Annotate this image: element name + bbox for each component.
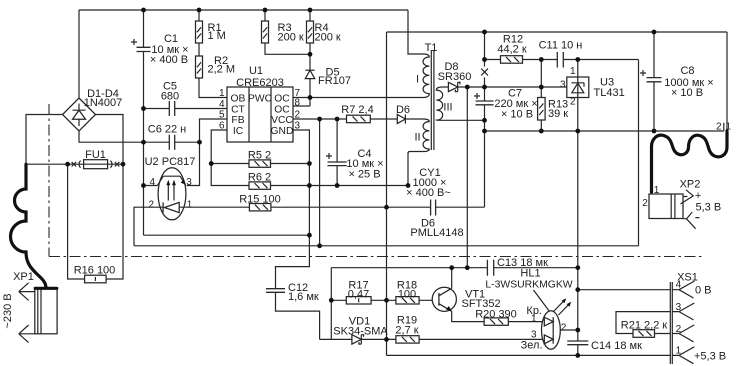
- wire: VT1 collector riser: [451, 268, 453, 289]
- wire: R16 loop under fuse: [68, 164, 123, 279]
- svg-text:× 400 В~: × 400 В~: [406, 187, 451, 199]
- svg-text:SR360: SR360: [438, 71, 472, 83]
- capacitor CY1: [431, 200, 436, 216]
- diode D5: [305, 70, 314, 78]
- svg-text:R16 100: R16 100: [74, 265, 116, 277]
- wire: C8 column: [653, 32, 655, 131]
- svg-text:4: 4: [219, 99, 225, 110]
- wire: C6 row from bridge minus: [79, 131, 200, 142]
- svg-text:D6: D6: [396, 104, 410, 116]
- resistor R5: [249, 160, 271, 167]
- svg-text:6: 6: [219, 121, 225, 132]
- cable to XP2: [652, 131, 728, 192]
- wire: pin6 IC column to R5/R6: [211, 130, 249, 186]
- U2 pin numbers: [148, 177, 192, 211]
- resistor R4: [307, 10, 314, 43]
- junction VD1 row: [384, 337, 389, 342]
- wire: +5.3V bottom rail to XS1 pin1: [387, 354, 671, 356]
- svg-text:1 М: 1 М: [208, 30, 226, 42]
- svg-text:5: 5: [219, 110, 225, 121]
- svg-text:+5,3 В: +5,3 В: [694, 351, 726, 363]
- capacitor C4: [326, 153, 347, 166]
- svg-text:C8: C8: [680, 65, 694, 77]
- junctions +5.3V top rail: [482, 30, 487, 35]
- diode D6: [397, 114, 405, 123]
- wire: R15 row opto pin1 to +5.3 riser: [186, 206, 387, 208]
- svg-text:4: 4: [676, 280, 682, 291]
- shunt regulator U3 TL431: [567, 77, 589, 98]
- svg-text:OC: OC: [274, 104, 290, 115]
- wire: opto pin2 to feedback rail: [134, 207, 159, 246]
- svg-text:39 к: 39 к: [548, 108, 568, 120]
- wire: VCC-to-feedback column x=319.6: [319, 119, 321, 246]
- svg-text:Зел.: Зел.: [521, 340, 543, 352]
- svg-text:3: 3: [560, 79, 566, 90]
- wire: pin5 FB via C6 node column: [187, 119, 228, 186]
- svg-text:C11 10 н: C11 10 н: [539, 40, 583, 52]
- resistor R21: [633, 330, 655, 338]
- wire: VD1-R19 row to HL1 pin3: [320, 338, 545, 340]
- labels wire numbers 2 1: [716, 122, 732, 133]
- svg-text:8: 8: [295, 98, 301, 109]
- svg-text:CT: CT: [231, 104, 245, 115]
- svg-text:44,2 к: 44,2 к: [497, 44, 526, 56]
- resistor R15: [249, 204, 271, 211]
- svg-text:PMLL4148: PMLL4148: [410, 227, 463, 239]
- svg-text:R21 2,2 к: R21 2,2 к: [621, 320, 668, 332]
- svg-text:200 к: 200 к: [315, 32, 341, 44]
- wire: D8 output row to TL431 ref: [442, 86, 567, 88]
- svg-text:680: 680: [161, 91, 179, 103]
- svg-text:IC: IC: [233, 126, 244, 137]
- dash-dot isolation boundary: [49, 104, 703, 257]
- svg-text:II: II: [414, 132, 420, 144]
- capacitor C5: [169, 101, 174, 116]
- svg-text:CRE6203: CRE6203: [236, 77, 284, 89]
- resistor R19: [396, 336, 419, 343]
- junction R4/D5: [308, 52, 313, 57]
- wire: C1/C5/C6/opto column x=143.5: [144, 10, 310, 235]
- transformer T1 winding III: [436, 87, 442, 120]
- junctions fuse row: [65, 162, 70, 167]
- capacitor C13: [487, 260, 493, 276]
- wire: output wire 1 drop at right edge: [726, 32, 728, 131]
- svg-text:3: 3: [295, 121, 301, 132]
- capacitor C6: [169, 135, 174, 150]
- svg-text:PWC: PWC: [248, 93, 273, 104]
- junctions R17 row: [329, 298, 334, 303]
- resistor R16: [85, 275, 107, 283]
- svg-text:U1: U1: [249, 65, 263, 77]
- transformer T1 winding I: [423, 54, 429, 98]
- junctions VCC row: [317, 117, 322, 122]
- wire: C12 bottom zigzag to VD1 anode row: [276, 292, 320, 339]
- wire: 0V rail y=131: [485, 130, 725, 132]
- connector XP1: [19, 283, 57, 343]
- svg-text:2: 2: [295, 110, 301, 121]
- junction drain node: [308, 95, 313, 100]
- resistor R3: [262, 10, 269, 43]
- bridge rectifier D1-D4: [63, 98, 96, 131]
- svg-text:R6 2: R6 2: [248, 172, 271, 184]
- svg-text:1: 1: [654, 185, 660, 196]
- wire: +DC top rail: [79, 10, 424, 98]
- XS1 pin numbers: [676, 280, 682, 357]
- wire: pin3 GND column: [276, 130, 310, 289]
- op-amp U1 CRE6203 controller IC: [227, 87, 293, 142]
- svg-text:3: 3: [676, 302, 682, 313]
- LED HL1 dual red/green: [534, 290, 572, 349]
- wire: R13 column: [540, 60, 542, 132]
- junction dots top rail: [141, 8, 146, 13]
- svg-text:× 10 В: × 10 В: [671, 87, 703, 99]
- wire: VT1 emitter to R20 to HL1 pin1: [452, 311, 545, 321]
- svg-text:R7 2,4: R7 2,4: [341, 104, 373, 116]
- capacitor C11: [557, 52, 563, 68]
- svg-text:OB: OB: [231, 93, 246, 104]
- svg-text:T1: T1: [425, 42, 438, 54]
- transformer T1 winding II: [408, 119, 429, 154]
- junction gnd column wireA: [307, 233, 312, 238]
- diode VD1 SK34-SMA: [352, 335, 364, 344]
- resistor R2: [196, 56, 203, 78]
- svg-text:I: I: [416, 74, 419, 86]
- wire: R21 loop XS1 pin3 to pin2: [616, 312, 670, 334]
- svg-text:~230 В: ~230 В: [2, 293, 14, 328]
- junctions 0V column: [575, 287, 580, 292]
- svg-text:2,7 к: 2,7 к: [395, 325, 418, 337]
- svg-text:1,6 мк: 1,6 мк: [288, 291, 319, 303]
- svg-text:200 к: 200 к: [278, 32, 304, 44]
- resistor R6: [249, 182, 271, 189]
- transformer T1 core: [431, 50, 434, 150]
- wire: TL431 cathode stub: [577, 60, 579, 78]
- svg-text:VCC: VCC: [271, 115, 293, 126]
- junctions D8 output row: [465, 85, 470, 90]
- svg-text:L-3WSURKMGKW: L-3WSURKMGKW: [485, 280, 572, 291]
- resistor R17: [346, 297, 371, 304]
- svg-text:TL431: TL431: [594, 87, 625, 99]
- wire: pin1 OB from R2: [199, 78, 227, 98]
- svg-text:100: 100: [398, 289, 416, 301]
- resistor R18: [396, 297, 419, 304]
- wire: +5.3V top rail: [387, 31, 728, 33]
- junctions R6 row: [307, 183, 312, 188]
- wire: VCC row pin2 to R7/D6/winding II: [293, 118, 424, 120]
- wire: +5.3V feed column x=467.3: [466, 87, 468, 268]
- resistor R20: [484, 318, 508, 325]
- svg-text:XP2: XP2: [680, 179, 701, 191]
- connector XS1: [670, 281, 694, 364]
- wire: R12 branch column x=484.5: [485, 32, 542, 101]
- U1 pin numbers: [219, 88, 301, 132]
- svg-text:FR107: FR107: [318, 75, 351, 87]
- svg-text:C6 22 н: C6 22 н: [148, 124, 186, 136]
- svg-text:5,3 В: 5,3 В: [696, 202, 722, 214]
- wire: HL1 pin2 to 0V column: [553, 329, 578, 331]
- svg-text:HL1: HL1: [520, 268, 540, 280]
- wire: +5.3V left riser x=386: [386, 32, 388, 355]
- svg-text:U2 PC817: U2 PC817: [145, 156, 196, 168]
- wire: 0V column x=577.8: [577, 131, 579, 355]
- junctions R5 row: [209, 161, 214, 166]
- wire: +5.3V row of output module: [331, 267, 578, 269]
- junctions +5.3V module row: [449, 265, 454, 270]
- svg-text:2: 2: [642, 198, 648, 209]
- wire: TL431 anode stub to 0V: [577, 98, 579, 132]
- svg-text:R20 390: R20 390: [475, 309, 517, 321]
- svg-text:OC: OC: [274, 93, 290, 104]
- svg-text:0,47: 0,47: [348, 289, 369, 301]
- svg-text:1: 1: [219, 88, 225, 99]
- wire: R5 row: [211, 163, 309, 165]
- capacitor C1: [131, 39, 151, 52]
- wire: C11 row: [541, 59, 638, 61]
- junction winding III bottom: [482, 118, 487, 123]
- tuning mark on R12 branch: [481, 69, 488, 76]
- svg-text:R15 100: R15 100: [239, 194, 281, 206]
- svg-text:R5 2: R5 2: [248, 150, 271, 162]
- cable to XP1: [10, 164, 56, 288]
- terminal tick output wires 2/1: [723, 123, 725, 131]
- wire: R3/R4 bottom link: [265, 43, 310, 54]
- svg-text:3: 3: [186, 177, 192, 188]
- svg-text:1N4007: 1N4007: [84, 97, 123, 109]
- junctions R12/C11 row: [482, 57, 487, 62]
- U1 pin functions: [231, 93, 294, 137]
- svg-text:2: 2: [716, 122, 722, 133]
- wire: R17-R18 row to VT1 base: [331, 299, 439, 301]
- svg-text:FB: FB: [231, 115, 244, 126]
- svg-text:C14 18 мк: C14 18 мк: [591, 340, 642, 352]
- svg-text:2,2 М: 2,2 М: [208, 63, 236, 75]
- resistor R13: [538, 98, 546, 121]
- diode D8 SR360: [448, 82, 460, 91]
- wire: drain row pin7/8 to winding I: [293, 54, 425, 106]
- wire: mains left branch to bridge: [26, 115, 84, 165]
- svg-text:XP1: XP1: [13, 271, 34, 283]
- resistor R12: [501, 56, 523, 64]
- junction feedback row: [317, 243, 322, 248]
- svg-text:× 10 В: × 10 В: [501, 109, 533, 121]
- junction R15/CY1 riser: [384, 205, 389, 210]
- capacitor C7: [474, 93, 494, 105]
- wire: mains right branch to bridge: [96, 115, 124, 165]
- U3 pin numbers: [560, 66, 576, 108]
- junctions C1 column: [141, 106, 146, 111]
- svg-text:SK34-SMA: SK34-SMA: [333, 326, 388, 338]
- junction C6/pin5 node: [197, 140, 202, 145]
- capacitor C12: [266, 289, 285, 293]
- wire: module left column to R17/VD1: [330, 268, 332, 340]
- svg-text:2: 2: [148, 199, 154, 210]
- fuse FU1: [72, 160, 120, 169]
- wire: C7/secondary gnd column x=484.5: [484, 105, 486, 207]
- svg-text:0 В: 0 В: [695, 285, 712, 297]
- svg-text:2: 2: [676, 324, 682, 335]
- resistor R1: [196, 10, 203, 56]
- XP2 pin numbers: [642, 185, 660, 209]
- svg-text:FU1: FU1: [85, 149, 106, 161]
- wire: CY1 row: [387, 206, 485, 208]
- wire: C4 column: [336, 119, 338, 186]
- junctions 0V rail: [482, 129, 487, 134]
- svg-text:2: 2: [570, 97, 576, 108]
- wire: pin4 CT row via C5: [144, 108, 228, 110]
- svg-text:× 25 В: × 25 В: [348, 169, 380, 181]
- wire: winding III bottom row: [441, 119, 485, 121]
- svg-text:1: 1: [531, 313, 537, 324]
- svg-text:GND: GND: [271, 126, 294, 137]
- transistor VT1 SFT352: [432, 287, 456, 311]
- svg-text:1: 1: [676, 346, 682, 357]
- svg-text:4: 4: [149, 177, 155, 188]
- svg-text:× 400 В: × 400 В: [150, 54, 188, 66]
- capacitor C8: [640, 70, 662, 82]
- resistor R7: [347, 115, 371, 123]
- optocoupler U2 PC817: [144, 168, 186, 220]
- svg-text:1: 1: [187, 199, 193, 210]
- connector XP2: [649, 190, 700, 229]
- wire: R6/GND row to winding II bottom: [271, 153, 409, 186]
- wire: 0V row to XS1 pin4: [578, 289, 671, 291]
- svg-text:III: III: [443, 102, 452, 114]
- capacitor C14: [567, 341, 588, 345]
- svg-text:1: 1: [726, 122, 732, 133]
- svg-text:+: +: [695, 190, 701, 202]
- svg-text:2: 2: [561, 322, 567, 333]
- wire: feedback rail to C11 right: [134, 60, 639, 246]
- svg-text:1: 1: [570, 66, 576, 77]
